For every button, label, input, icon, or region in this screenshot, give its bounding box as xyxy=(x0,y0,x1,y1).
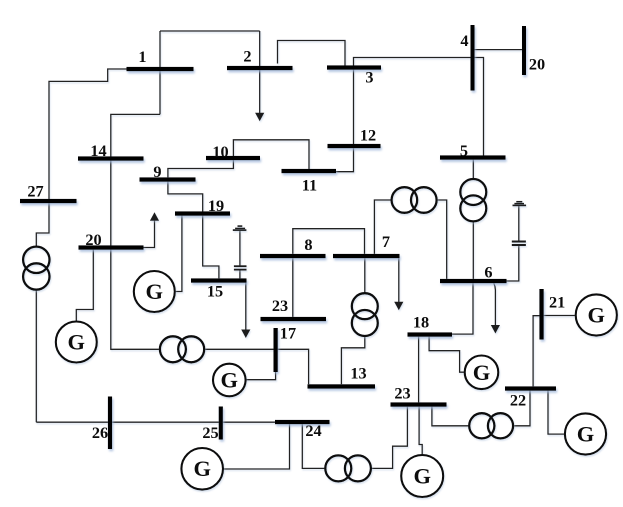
svg-text:14: 14 xyxy=(90,141,106,160)
svg-text:7: 7 xyxy=(382,232,390,251)
wire capacitor C1 upper stem xyxy=(239,231,241,266)
wire bus20 to G1 xyxy=(76,250,93,322)
bus 17 xyxy=(274,328,278,372)
wire bus24 to G4 xyxy=(223,424,289,469)
wire transformer T5 to bus13 xyxy=(341,336,364,384)
arrow load bus6 xyxy=(491,325,500,334)
wire bus6 to capacitor C2 xyxy=(507,246,519,281)
svg-text:G: G xyxy=(588,302,606,327)
capacitor C2 top disc xyxy=(516,201,522,203)
wire bus6 load feeder xyxy=(494,283,496,326)
transformer T7 bus23-bus22 xyxy=(469,413,494,438)
svg-text:26: 26 xyxy=(92,423,108,442)
bus 9 xyxy=(140,177,196,181)
svg-text:23: 23 xyxy=(394,384,410,403)
bus 26 xyxy=(108,397,112,450)
wire bus21 to G7 xyxy=(544,315,576,317)
generator G8 bus22 xyxy=(565,413,606,454)
bus 20 top xyxy=(522,26,526,75)
wire bus2 load feeder xyxy=(259,31,261,114)
wire bus19 to bus15 xyxy=(203,216,219,279)
svg-text:17: 17 xyxy=(280,323,296,342)
transformer T5 bus7-bus13 xyxy=(352,293,378,319)
bus 27 xyxy=(20,199,77,203)
bus 10 xyxy=(206,156,260,160)
capacitor C2 bus6 plates xyxy=(512,241,526,243)
generator G3 bus17 xyxy=(213,364,246,397)
svg-text:20: 20 xyxy=(85,230,101,249)
wire bus23 lower to G5 xyxy=(419,407,422,456)
wire bus10 to bus11 xyxy=(233,140,309,169)
svg-text:27: 27 xyxy=(27,182,43,201)
bus 15 xyxy=(191,278,247,282)
arrow source bus20 xyxy=(150,212,159,221)
wire bus17 to G3 xyxy=(246,372,276,380)
wire bus2 to bus3 xyxy=(278,41,346,66)
generator G1 bus20 xyxy=(56,322,97,363)
wire bus1 to bus14/bus20 chain xyxy=(111,114,160,349)
svg-text:21: 21 xyxy=(549,293,565,312)
wire bus23 lower to transformer T7 xyxy=(432,407,469,426)
bus 21 xyxy=(539,289,543,340)
svg-text:G: G xyxy=(221,368,239,393)
wire bus22 to G8 xyxy=(548,391,565,435)
bus 25 xyxy=(219,407,223,440)
wire bus9 to bus19 xyxy=(168,182,203,212)
svg-text:G: G xyxy=(193,456,211,481)
svg-text:G: G xyxy=(146,279,164,304)
wire capacitor C1 lower stem xyxy=(239,270,241,279)
svg-text:G: G xyxy=(413,464,431,489)
wire bus18 to G6 xyxy=(429,337,465,373)
wire bus21 to bus22 xyxy=(533,316,541,387)
wire bus15 load feeder xyxy=(245,283,247,331)
svg-text:22: 22 xyxy=(510,391,526,410)
transformer T6 bus24-bus23 xyxy=(325,455,351,481)
arrow load bus7 xyxy=(394,302,403,311)
svg-text:2: 2 xyxy=(243,47,251,66)
wire bus7 to transformer T3 xyxy=(374,200,391,254)
wire bus8 to bus23 upper xyxy=(292,258,294,317)
bus 3 xyxy=(327,65,381,69)
svg-text:5: 5 xyxy=(460,141,468,160)
svg-text:18: 18 xyxy=(413,313,429,332)
transformer T2 bus20-bus17 xyxy=(160,336,186,362)
svg-text:23: 23 xyxy=(272,296,288,315)
generator G5 bus23 lower xyxy=(401,455,443,497)
wire bus19 to G2 xyxy=(175,216,182,292)
arrow load bus15 xyxy=(241,330,250,339)
wire bus1 vertical stub xyxy=(159,31,161,114)
wire bus23 lower to transformer T6 xyxy=(371,407,408,469)
bus 19 xyxy=(175,211,230,215)
generator G4 bus24 xyxy=(181,448,223,490)
bus 7 xyxy=(333,254,400,258)
svg-text:3: 3 xyxy=(365,68,373,87)
wire transformer T2 to bus17 to bus13 xyxy=(204,349,309,384)
svg-text:4: 4 xyxy=(460,31,468,50)
arrow load bus2 xyxy=(255,113,264,122)
svg-text:24: 24 xyxy=(305,421,321,440)
svg-text:6: 6 xyxy=(484,263,492,282)
wire bus4 to bus20 xyxy=(473,49,525,51)
transformer T1 bus27-bus26 xyxy=(23,247,49,273)
svg-text:13: 13 xyxy=(350,364,366,383)
bus 2 xyxy=(227,66,293,70)
svg-text:9: 9 xyxy=(153,162,161,181)
wire transformer T4 to bus6 xyxy=(472,221,474,279)
wire capacitor C2 upper stem xyxy=(518,206,520,241)
capacitor C1 bus15 plates xyxy=(234,265,247,267)
bus 1 xyxy=(127,67,194,71)
bus 13 xyxy=(308,384,376,388)
transformer T4 bus5-bus6 xyxy=(460,179,486,205)
wire transformer T3 to bus6 xyxy=(437,200,447,279)
svg-text:20: 20 xyxy=(529,55,545,74)
bus 20 xyxy=(79,245,144,249)
bus 12 xyxy=(328,144,381,148)
svg-text:15: 15 xyxy=(207,282,223,301)
wire bus20 reactor feeder xyxy=(144,220,155,248)
wire bus8 to bus7 bridge xyxy=(293,229,365,254)
wire bus1 to bus27 xyxy=(36,69,126,247)
bus 5 xyxy=(440,155,506,159)
svg-text:11: 11 xyxy=(302,176,317,195)
wire transformer T1 to bus26 line xyxy=(35,290,37,423)
svg-text:12: 12 xyxy=(360,126,376,145)
generator G6 bus18 xyxy=(465,356,499,390)
generator G2 bus19 xyxy=(134,271,175,312)
bus 11 xyxy=(282,169,337,173)
bus 23 upper xyxy=(261,317,327,321)
bus 18 xyxy=(408,332,453,336)
svg-text:G: G xyxy=(68,329,86,354)
bus 23 lower xyxy=(391,402,447,406)
wire transformer T6 to bus24 xyxy=(302,424,325,468)
svg-text:1: 1 xyxy=(138,47,146,66)
svg-text:10: 10 xyxy=(212,142,228,161)
svg-text:25: 25 xyxy=(202,423,218,442)
bus 4 xyxy=(471,25,475,91)
bus 14 xyxy=(78,156,144,160)
svg-text:G: G xyxy=(473,360,491,385)
transformer T3 bus7-bus6 xyxy=(392,187,418,213)
svg-text:G: G xyxy=(577,422,595,447)
wire bus9 to bus10 xyxy=(168,158,234,177)
wire bus6 to bus18 xyxy=(452,283,473,334)
bus 24 xyxy=(275,420,330,424)
wire bus7 to transformer T5 xyxy=(364,258,366,293)
bus 8 xyxy=(260,254,326,258)
wire transformer T7 to bus22 xyxy=(513,391,530,426)
generator G7 bus21 xyxy=(576,294,617,335)
bus 6 xyxy=(440,279,507,283)
bus 22 xyxy=(505,386,556,390)
svg-text:8: 8 xyxy=(304,235,312,254)
wire bus18 to bus23 lower xyxy=(418,337,420,403)
wire bus5 to transformer T4 xyxy=(472,160,474,180)
capacitor C1 top disc xyxy=(238,225,243,227)
wire bus26-bus25-bus24 tie xyxy=(36,421,275,423)
wire bus1-bus2 top link xyxy=(160,30,260,32)
svg-text:19: 19 xyxy=(208,196,224,215)
wire bus3-bus4-bus5 and bus12-bus11 drop xyxy=(336,58,484,172)
wire bus7 load feeder xyxy=(398,258,400,303)
